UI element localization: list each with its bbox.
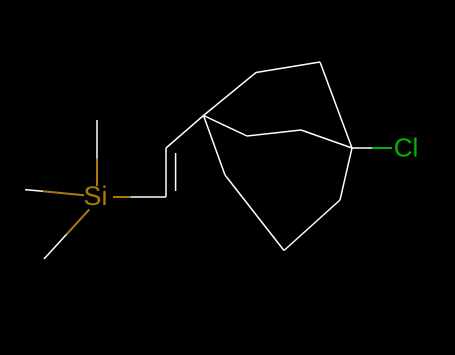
cage bond F-A	[204, 116, 226, 176]
cage bridge bond M1-M2	[247, 130, 301, 136]
cage bond B-C	[256, 62, 320, 73]
Si left methyl white half	[25, 190, 43, 192]
cage bond E-F	[225, 175, 284, 251]
cage bridge bond M2-D	[301, 130, 352, 148]
cage bond C-D	[320, 62, 352, 148]
Si up methyl gold half	[96, 159, 98, 187]
Si left methyl gold half	[43, 191, 84, 195]
vinyl bond C2-A	[166, 116, 204, 149]
cage bridge bond A-M1	[204, 116, 248, 137]
svg-text:Cl: Cl	[394, 133, 419, 163]
bond D-Cl green half	[372, 147, 392, 149]
double bond main line C1-C2	[165, 148, 167, 197]
svg-text:Si: Si	[84, 181, 108, 211]
bond Si-C1 white half	[131, 196, 166, 198]
double bond inner line	[175, 153, 177, 191]
Si lower-left methyl gold half	[67, 209, 90, 234]
cage bond D-V	[340, 148, 352, 200]
cage bond V-E	[284, 200, 340, 251]
Si lower-left methyl white half	[44, 234, 67, 259]
bond D-Cl white half	[352, 147, 372, 149]
bond Si-C1 gold half	[113, 196, 131, 198]
Si up methyl white half	[96, 120, 98, 159]
cage bond A-B	[204, 73, 257, 116]
